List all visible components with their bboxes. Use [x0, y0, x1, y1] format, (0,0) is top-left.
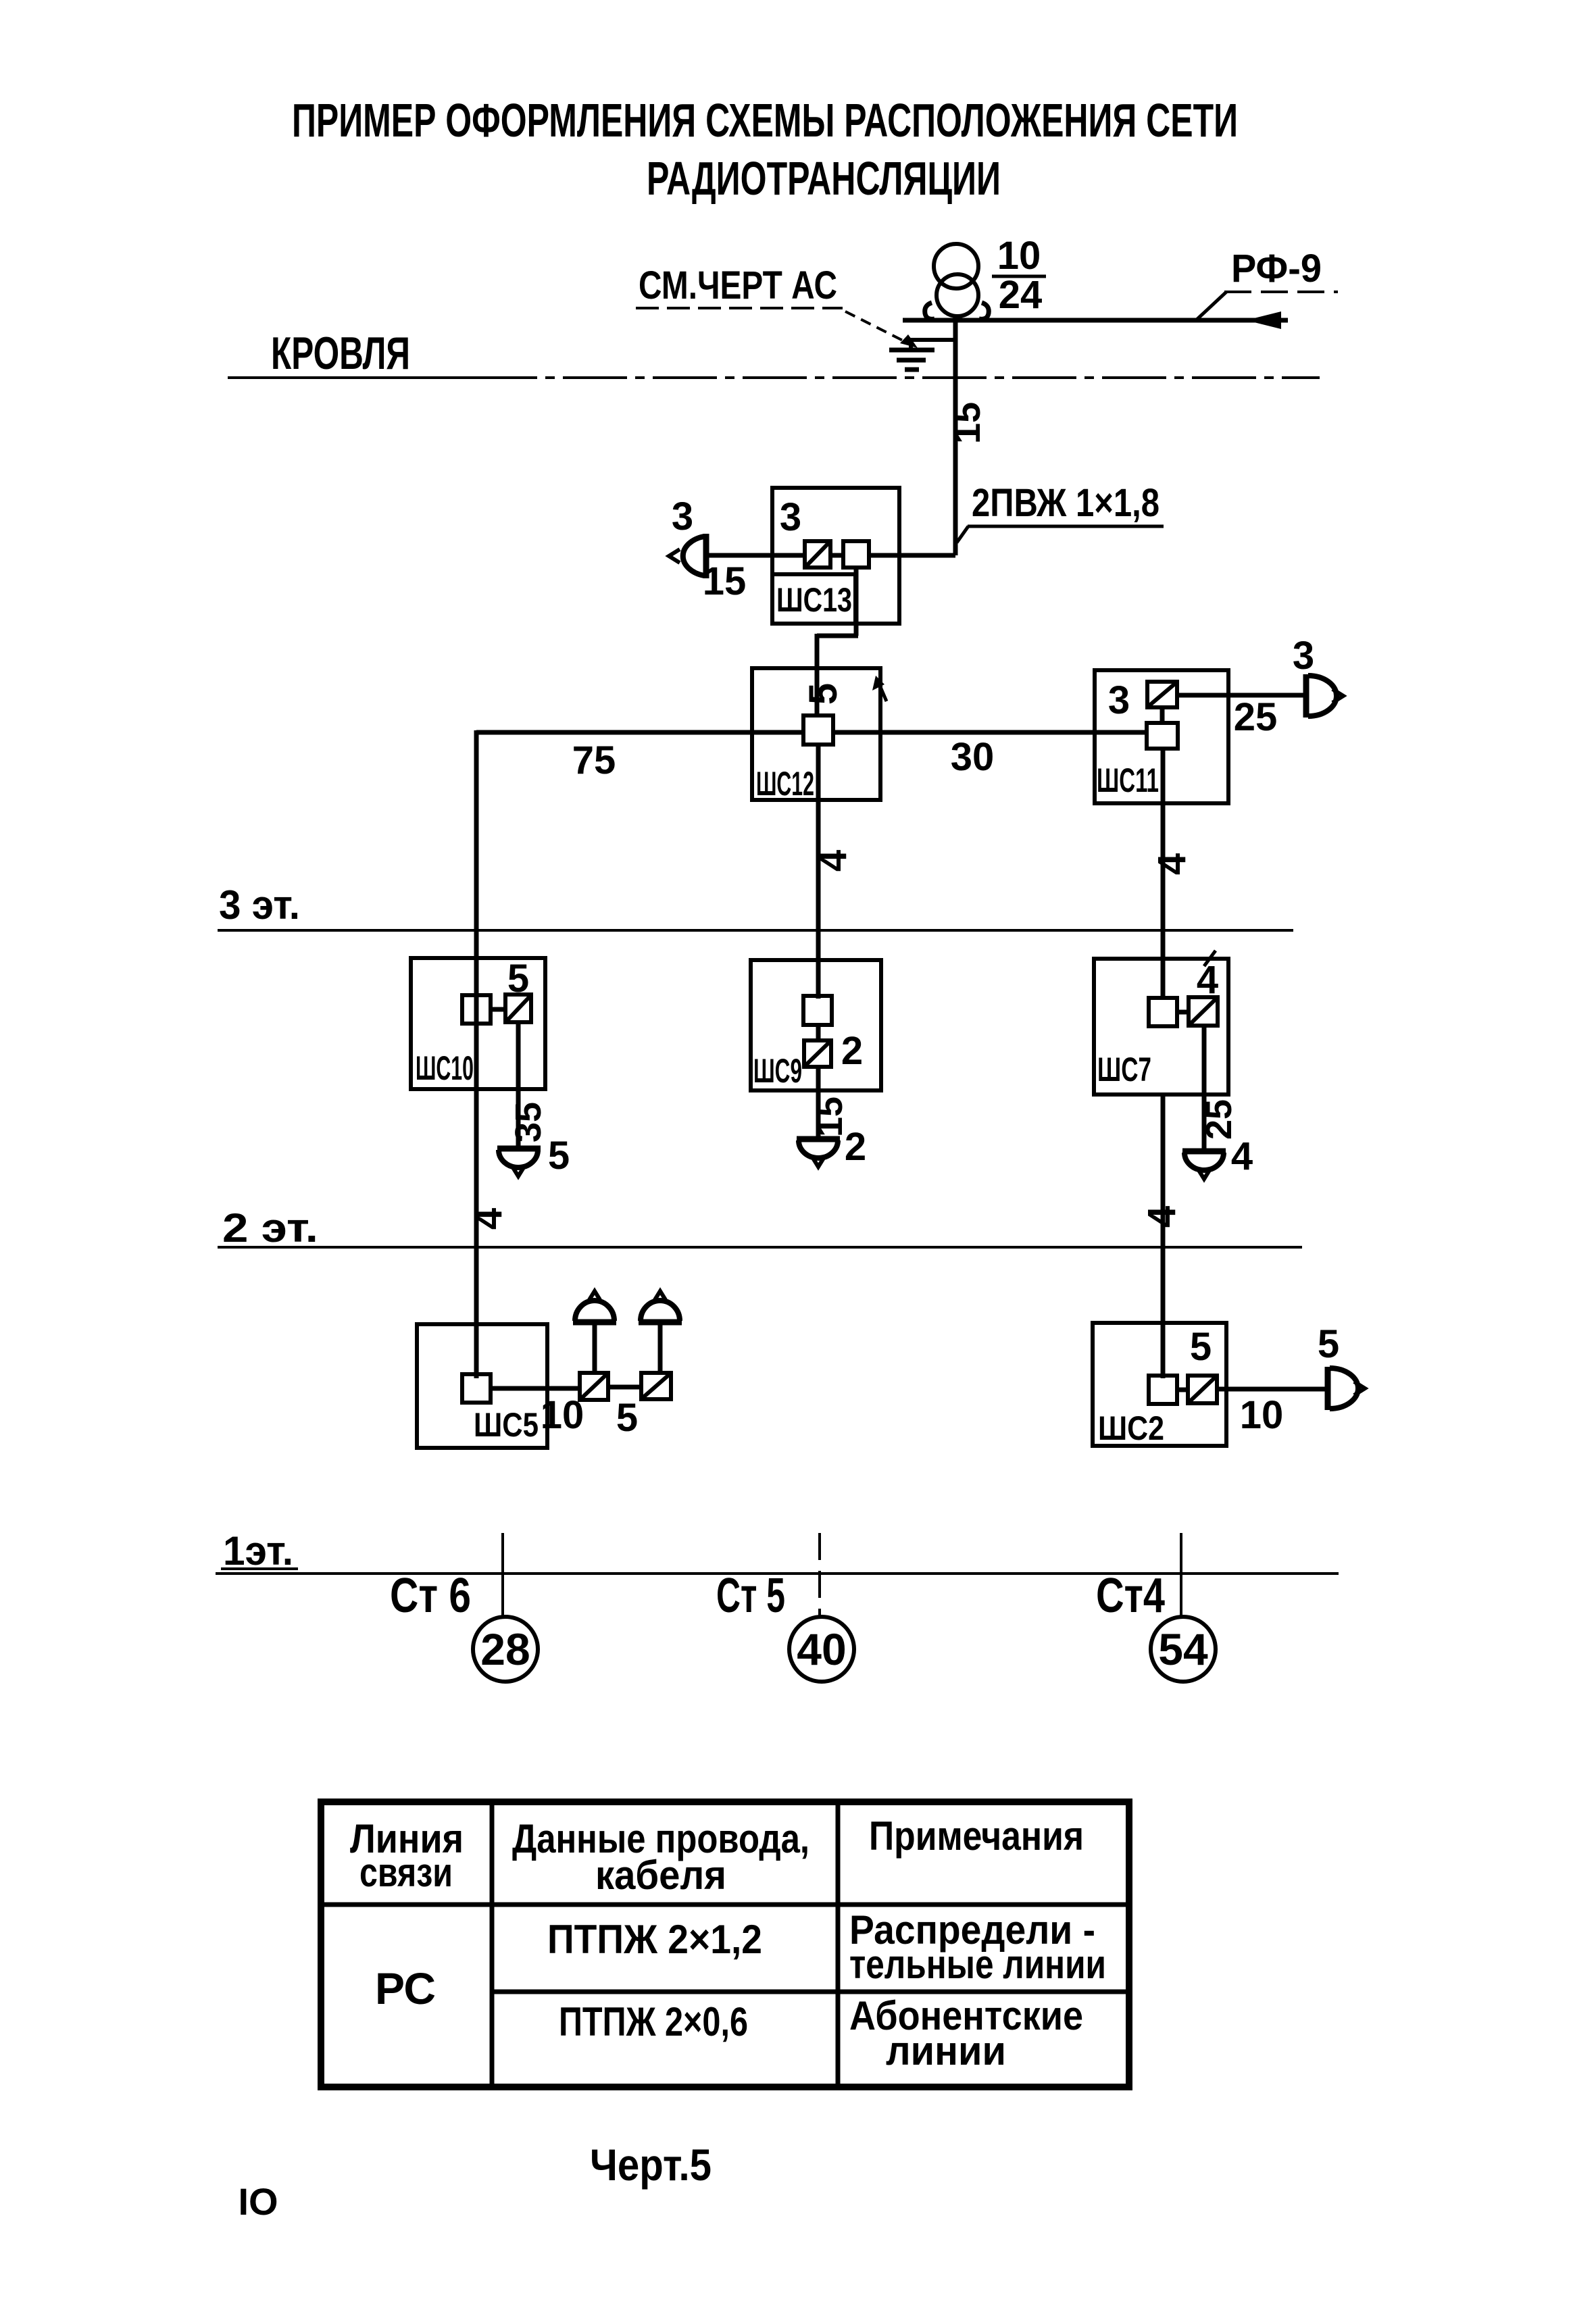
wire ШС11 to speaker (25): [1177, 693, 1305, 698]
cell Абонентские линии: [849, 1993, 1083, 2073]
wire between squares ШС11: [1160, 707, 1165, 723]
box ШС9: [751, 960, 881, 1090]
loudspeaker (below ШС7): [1182, 1151, 1226, 1179]
wire trunk right (30): [833, 730, 1145, 735]
wire ШС7 down to ШС2: [1161, 1095, 1166, 1378]
svg-text:15: 15: [703, 559, 747, 603]
svg-text:ПРИМЕР ОФОРМЛЕНИЯ СХЕМЫ РАСПОЛ: ПРИМЕР ОФОРМЛЕНИЯ СХЕМЫ РАСПОЛОЖЕНИЯ СЕТ…: [292, 94, 1238, 147]
svg-text:3: 3: [672, 495, 693, 538]
roof line (dash-dot): [228, 376, 473, 379]
svg-text:ШС5: ШС5: [474, 1406, 539, 1444]
svg-text:ШС9: ШС9: [753, 1052, 802, 1090]
svg-text:5: 5: [616, 1396, 638, 1440]
label РФ-9: [1224, 247, 1338, 292]
svg-text:2ПВЖ 1×1,8: 2ПВЖ 1×1,8: [972, 481, 1159, 525]
wire between squares ШС7: [1177, 1010, 1189, 1015]
label box ШС13: [772, 574, 855, 624]
floor line 2: [218, 1246, 1302, 1249]
svg-text:ШС10: ШС10: [416, 1049, 474, 1087]
wire ШС2 to speaker (10): [1217, 1387, 1327, 1392]
svg-text:1эт.: 1эт.: [223, 1528, 293, 1574]
attenuator (slash square 2, ШС5 line): [641, 1373, 671, 1399]
node circle 40: [789, 1617, 854, 1682]
svg-text:Ст 5: Ст 5: [716, 1569, 785, 1623]
label 10/24 fraction: [992, 234, 1046, 317]
svg-text:5: 5: [801, 683, 845, 705]
attenuator (slash square, ШС11): [1147, 682, 1177, 707]
wire speaker 1 up (ШС5): [593, 1323, 597, 1373]
wire between squares ШС10: [491, 1007, 505, 1012]
node column Ст 6 tick: [501, 1533, 504, 1618]
svg-text:ШС13: ШС13: [776, 581, 852, 619]
svg-text:4: 4: [811, 850, 855, 872]
svg-text:4: 4: [1197, 958, 1218, 1002]
svg-text:Примечания: Примечания: [869, 1813, 1084, 1859]
label 2ПВЖ 1x1,8: [957, 481, 1164, 543]
svg-text:ШС2: ШС2: [1098, 1409, 1164, 1447]
loudspeaker (above slash 1): [573, 1291, 616, 1322]
svg-text:Ст 6: Ст 6: [390, 1569, 471, 1623]
svg-text:10: 10: [541, 1393, 584, 1437]
box ШС12: [752, 668, 880, 800]
svg-text:3 эт.: 3 эт.: [219, 882, 300, 928]
svg-text:75: 75: [572, 738, 616, 782]
svg-text:линии: линии: [886, 2028, 1006, 2073]
box ШС5: [417, 1324, 547, 1448]
svg-text:25: 25: [1234, 695, 1278, 739]
label 3 эт.: [219, 882, 300, 928]
svg-text:2: 2: [841, 1029, 863, 1073]
box ШС11: [1095, 670, 1228, 803]
header Линия связи: [350, 1816, 464, 1895]
loudspeaker (left of ШС13): [669, 534, 706, 578]
attenuator (slash square, ШС13): [805, 541, 830, 568]
svg-text:15: 15: [945, 402, 988, 444]
svg-text:РФ-9: РФ-9: [1231, 247, 1322, 291]
svg-text:5: 5: [1318, 1322, 1339, 1366]
arrow (ШС7 top right): [1204, 951, 1216, 966]
svg-text:Черт.5: Черт.5: [590, 2140, 712, 2190]
wire left riser down: [474, 730, 479, 1378]
wire ШС7 to speaker: [1202, 1026, 1207, 1152]
junction square (ШС12): [803, 715, 833, 745]
floor line 3: [218, 929, 1293, 932]
node column Ст 5 tick: [818, 1533, 821, 1618]
ground: [889, 338, 955, 370]
table frame: [321, 1802, 1129, 2087]
leader to РФ-9 label: [1196, 292, 1226, 320]
svg-text:28: 28: [480, 1624, 530, 1674]
junction square (ШС2): [1149, 1376, 1177, 1404]
wire ШС10 to speaker: [516, 1022, 521, 1149]
junction square (ШС7): [1149, 998, 1177, 1026]
svg-text:3: 3: [1293, 634, 1314, 678]
svg-text:3: 3: [780, 495, 801, 539]
svg-text:СМ.ЧЕРТ АС: СМ.ЧЕРТ АС: [639, 263, 837, 307]
svg-text:10: 10: [1240, 1393, 1284, 1437]
box ШС7: [1094, 959, 1228, 1095]
table header bottom line: [321, 1903, 1129, 1907]
svg-text:4: 4: [1150, 853, 1194, 875]
svg-text:ПТПЖ 2×1,2: ПТПЖ 2×1,2: [547, 1917, 762, 1962]
wire box ШС13 to riser: [869, 553, 955, 558]
svg-text:ПТПЖ 2×0,6: ПТПЖ 2×0,6: [559, 1999, 748, 2044]
svg-text:3: 3: [1108, 678, 1130, 722]
junction square (ШС9): [803, 996, 832, 1025]
wire ШС9 to speaker: [816, 1067, 821, 1140]
svg-text:5: 5: [507, 957, 529, 1001]
attenuator (slash square, ШС9): [804, 1040, 831, 1067]
label См.черт АС: [636, 263, 843, 308]
svg-text:24: 24: [999, 273, 1043, 317]
wire ШС12 down to ШС9: [816, 745, 821, 999]
arrow (ШС12 top right): [872, 676, 887, 701]
wire roof feeder to РФ-9: [903, 318, 1288, 323]
wire ШС13 down to ШС12 (jog): [817, 568, 858, 718]
wire between attenuators ШС5: [608, 1385, 642, 1390]
svg-text:КРОВЛЯ: КРОВЛЯ: [271, 328, 410, 379]
node circle 54: [1151, 1617, 1216, 1682]
attenuator (slash square, ШС7): [1189, 997, 1218, 1026]
wire between squares ШС13: [830, 553, 843, 558]
svg-text:2: 2: [845, 1125, 866, 1169]
header Данные провода, кабеля: [512, 1816, 809, 1898]
junction square (ШС13): [843, 541, 869, 568]
label 1 эт. underline: [221, 1567, 298, 1570]
node circle 28: [473, 1617, 538, 1682]
svg-text:10: 10: [997, 234, 1041, 278]
junction square (ШС11): [1147, 723, 1178, 749]
table column line 1: [490, 1802, 495, 2087]
svg-text:5: 5: [548, 1134, 570, 1178]
svg-text:Ст4: Ст4: [1096, 1569, 1165, 1623]
loudspeaker (above slash 2): [639, 1291, 682, 1322]
svg-text:связи: связи: [359, 1850, 453, 1895]
svg-text:кабеля: кабеля: [595, 1853, 726, 1898]
leader dashed arrow to ground: [845, 311, 914, 346]
svg-text:ШС12: ШС12: [756, 765, 814, 803]
arrow on feeder: [1246, 311, 1281, 329]
svg-text:40: 40: [797, 1624, 846, 1674]
wire speaker to box ШС13: [707, 553, 805, 558]
junction square (ШС10): [462, 995, 491, 1024]
attenuator (slash square 1, ШС5 line): [580, 1373, 608, 1400]
box ШС13: [772, 488, 899, 624]
wire trunk left (75): [476, 730, 803, 735]
svg-text:4: 4: [466, 1208, 510, 1230]
loudspeaker (below ШС9): [797, 1139, 840, 1167]
junction square (ШС5): [462, 1374, 491, 1403]
cell Распределительные линии: [849, 1907, 1106, 1987]
svg-text:54: 54: [1158, 1624, 1208, 1674]
loudspeaker (right of ШС11): [1306, 674, 1343, 718]
svg-text:35: 35: [508, 1102, 549, 1142]
svg-text:5: 5: [1190, 1325, 1212, 1369]
box ШС2: [1093, 1323, 1226, 1446]
node column Ст 4 tick: [1180, 1533, 1182, 1618]
wire ШС5 to attenuators: [491, 1386, 582, 1391]
wire speaker 2 up (ШС5): [658, 1323, 663, 1373]
wire between squares ШС2: [1177, 1388, 1188, 1392]
loudspeaker (right of ШС2): [1328, 1367, 1365, 1410]
loudspeaker (below ШС10): [497, 1149, 541, 1176]
floor line 1: [216, 1572, 1339, 1575]
attenuator (slash square, ШС10): [505, 995, 531, 1022]
table row line: [492, 1990, 1129, 1994]
svg-text:ШС11: ШС11: [1097, 761, 1159, 799]
table column line 2: [836, 1802, 841, 2087]
svg-text:РС: РС: [375, 1963, 436, 2013]
wire between squares ШС9: [816, 1025, 821, 1040]
wire riser from transformer: [953, 316, 958, 555]
svg-text:4: 4: [1231, 1134, 1253, 1178]
svg-text:тельные линии: тельные линии: [849, 1942, 1106, 1987]
svg-text:ШС7: ШС7: [1097, 1051, 1151, 1088]
svg-text:РАДИОТРАНСЛЯЦИИ: РАДИОТРАНСЛЯЦИИ: [647, 152, 1001, 205]
svg-text:IO: IO: [238, 2180, 278, 2223]
transformer T (two circles): [925, 244, 989, 319]
box ШС10: [411, 958, 545, 1089]
svg-text:2 эт.: 2 эт.: [222, 1205, 318, 1251]
svg-text:30: 30: [951, 735, 995, 779]
wire ШС11 down to ШС7: [1161, 749, 1166, 1000]
attenuator (slash square, ШС2): [1188, 1376, 1217, 1403]
